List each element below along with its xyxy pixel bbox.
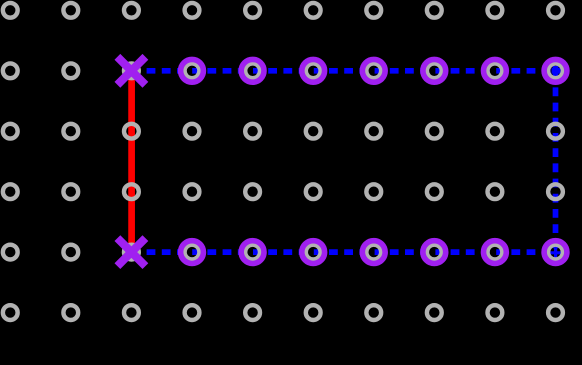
grid dot r3c9 [488, 124, 503, 139]
grid dot r4c1 [3, 184, 18, 199]
grid dot r3c5 [245, 124, 260, 139]
grid dot r2c3 [124, 63, 139, 78]
grid dot r2c9 [488, 63, 503, 78]
grid dot r4c6 [306, 184, 321, 199]
red line [128, 71, 135, 252]
grid dot r2c7 [366, 63, 381, 78]
visited marker ring r2c5 [241, 59, 264, 82]
visited marker ring r2c10 [544, 59, 567, 82]
visited marker ring r2c7 [362, 59, 385, 82]
grid dot r6c3 [124, 305, 139, 320]
grid dot r3c6 [306, 124, 321, 139]
grid dot r3c8 [427, 124, 442, 139]
grid dot r5c2 [63, 245, 78, 260]
grid dot r3c1 [3, 124, 18, 139]
grid dot r6c6 [306, 305, 321, 320]
grid dot r1c8 [427, 3, 442, 18]
grid dot r6c5 [245, 305, 260, 320]
grid dot r6c8 [427, 305, 442, 320]
grid dot r4c3 [124, 184, 139, 199]
grid dot r6c7 [366, 305, 381, 320]
grid dot r1c2 [63, 3, 78, 18]
grid dot r1c1 [3, 3, 18, 18]
grid dot r6c10 [548, 305, 563, 320]
visited marker ring r2c9 [484, 59, 507, 82]
visited marker ring r5c7 [362, 241, 385, 264]
grid dot r3c7 [366, 124, 381, 139]
grid dot r3c3 [124, 124, 139, 139]
grid dot r6c9 [488, 305, 503, 320]
grid dot r4c5 [245, 184, 260, 199]
grid dot r5c10 [548, 245, 563, 260]
visited marker ring r2c6 [302, 59, 325, 82]
grid dot r5c4 [185, 245, 200, 260]
visited marker ring r2c8 [423, 59, 446, 82]
grid dot r4c7 [366, 184, 381, 199]
grid dot r4c2 [63, 184, 78, 199]
blue dashed right segment [553, 72, 559, 252]
grid dot r4c8 [427, 184, 442, 199]
grid dot r1c7 [366, 3, 381, 18]
grid dot r2c4 [185, 63, 200, 78]
X marker top [117, 57, 145, 85]
grid dot r5c7 [366, 245, 381, 260]
grid dot r1c3 [124, 3, 139, 18]
visited marker ring r5c8 [423, 241, 446, 264]
grid dot r3c4 [185, 124, 200, 139]
grid dot r3c2 [63, 124, 78, 139]
grid dot r1c5 [245, 3, 260, 18]
X marker bottom [117, 238, 145, 266]
blue dashed top segment [131, 68, 555, 74]
blue dashed bottom segment [131, 249, 555, 255]
grid dot r1c4 [185, 3, 200, 18]
grid dot r2c10 [548, 63, 563, 78]
grid dot r2c6 [306, 63, 321, 78]
visited marker ring r5c6 [302, 241, 325, 264]
grid dot r1c9 [488, 3, 503, 18]
grid dot r4c9 [488, 184, 503, 199]
visited marker ring r5c9 [484, 241, 507, 264]
grid dot r2c5 [245, 63, 260, 78]
grid dot r1c6 [306, 3, 321, 18]
grid dot r3c10 [548, 124, 563, 139]
visited marker ring r5c4 [181, 241, 204, 264]
grid dot r5c5 [245, 245, 260, 260]
grid dot r5c8 [427, 245, 442, 260]
grid dot r6c2 [63, 305, 78, 320]
grid dot r2c1 [3, 63, 18, 78]
visited marker ring r5c10 [544, 241, 567, 264]
grid dot r5c1 [3, 245, 18, 260]
blue plus cursor at bottom-right corner [550, 248, 562, 259]
grid dot r4c4 [185, 184, 200, 199]
grid dot r5c9 [488, 245, 503, 260]
grid dot r5c3 [124, 245, 139, 260]
grid dot r4c10 [548, 184, 563, 199]
grid dot r6c1 [3, 305, 18, 320]
blue dash stub above top-right corner [553, 66, 559, 73]
grid dot r2c2 [63, 63, 78, 78]
grid dot r2c8 [427, 63, 442, 78]
grid dot r1c10 [548, 3, 563, 18]
blue dash piece at top-right corner [552, 68, 561, 74]
grid dot r6c4 [185, 305, 200, 320]
visited marker ring r5c5 [241, 241, 264, 264]
grid dot r5c6 [306, 245, 321, 260]
visited marker ring r2c4 [181, 59, 204, 82]
